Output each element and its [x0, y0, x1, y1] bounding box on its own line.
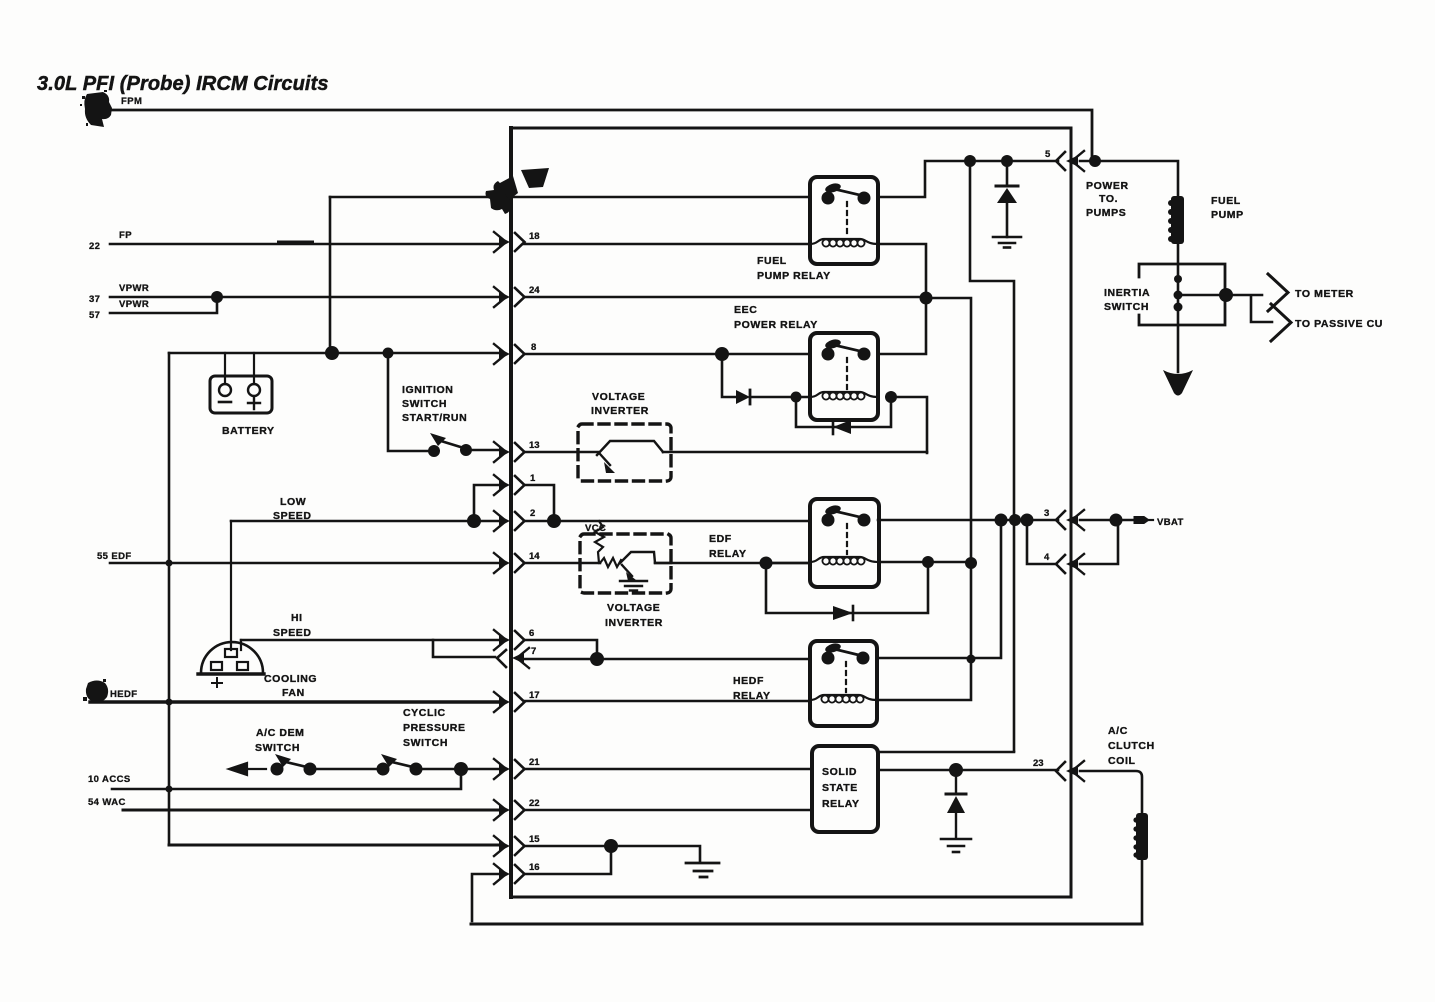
title — [37, 73, 329, 95]
junction dot (796,397) — [791, 392, 802, 403]
wire EEC coil out to pin13 net — [891, 397, 927, 453]
svg-text:22: 22 — [529, 798, 540, 809]
EDF relay box — [810, 499, 879, 587]
label 22 FP — [89, 230, 132, 252]
pin 23 — [1033, 758, 1084, 781]
pin 3 — [1044, 508, 1084, 530]
label 57 VPWR — [89, 299, 149, 321]
junction dot (474,521) — [467, 514, 481, 528]
wire pin21 inside to SSR — [524, 768, 812, 771]
wire pin2 row to EDF relay — [554, 520, 1058, 521]
blotch trapezoid — [521, 168, 549, 188]
EEC relay coil — [810, 392, 878, 400]
label VCC — [585, 523, 606, 534]
junction dot (928,562) — [922, 556, 934, 568]
svg-text:VOLTAGE: VOLTAGE — [592, 391, 645, 403]
label HEDF RELAY — [733, 675, 771, 702]
pin 4 — [1044, 552, 1084, 574]
label A/C DEM SWITCH — [255, 727, 305, 754]
pin 1 — [494, 473, 536, 495]
node FPM blob — [80, 90, 112, 127]
junction dot (169,702) — [166, 699, 173, 706]
wire pin15 inside — [524, 846, 700, 862]
diode arrow on EEC loop — [833, 420, 851, 434]
junction dot A (970,161) — [964, 155, 976, 167]
junction dot (461,769) — [454, 762, 468, 776]
arrow ACCS left end — [229, 763, 266, 775]
junction dot (766,563) — [760, 557, 773, 570]
wire hi speed step to pin7 — [433, 640, 495, 657]
junction dot (971,563) — [965, 557, 977, 569]
junction dot B (1007,161) — [1001, 155, 1013, 167]
svg-text:STATE: STATE — [822, 782, 858, 794]
label 37 VPWR — [89, 283, 149, 305]
svg-text:24: 24 — [529, 285, 540, 296]
pin 8 — [494, 342, 536, 364]
cooling fan — [198, 521, 264, 687]
wire FP pin18 outside — [110, 243, 501, 246]
svg-text:COOLING: COOLING — [264, 673, 317, 685]
label INERTIA SWITCH — [1104, 287, 1150, 313]
EEC relay contacts — [822, 338, 871, 389]
junction dot (956,770) — [949, 763, 963, 777]
pin 18 — [494, 231, 540, 252]
wire HI SPEED — [241, 639, 501, 642]
wire diode branch — [1006, 161, 1009, 237]
VBAT arrow — [1134, 517, 1149, 524]
pin 16 — [494, 862, 540, 884]
wire SSR out pin23 — [878, 769, 1058, 772]
junction dot (597,659) — [590, 652, 604, 666]
svg-text:VBAT: VBAT — [1157, 517, 1184, 528]
svg-text:FP: FP — [119, 230, 132, 241]
svg-text:EEC: EEC — [734, 304, 757, 316]
label HI SPEED — [273, 612, 312, 639]
net label FPM — [121, 96, 142, 107]
arrow TO PASSIVE CU — [1271, 304, 1291, 341]
connector line — [509, 128, 513, 897]
svg-text:55 EDF: 55 EDF — [97, 551, 132, 562]
HEDF relay contacts — [822, 642, 870, 692]
wire bottom outer — [471, 923, 1142, 926]
pin 22 — [494, 798, 540, 820]
svg-text:INVERTER: INVERTER — [591, 405, 649, 417]
junction dot (1116,520) — [1110, 514, 1123, 527]
svg-text:FPM: FPM — [121, 96, 142, 107]
junction dot (891,397) — [885, 391, 897, 403]
transistor Q1 — [597, 441, 663, 473]
A/C clutch coil — [1133, 813, 1148, 860]
junction dot (169,789) — [166, 786, 173, 793]
label TO METER — [1295, 288, 1354, 300]
junction dot (388,353) — [383, 348, 394, 359]
wire pin16 outside to bottom loop — [472, 874, 501, 921]
pin 13 — [494, 440, 540, 462]
wire EDF coil in — [766, 562, 810, 565]
label HEDF — [110, 689, 137, 700]
svg-text:A/C DEM: A/C DEM — [256, 727, 305, 739]
junction dot pin5/FPM (1095,161) — [1089, 155, 1101, 167]
diode D1 to ground — [996, 186, 1018, 203]
svg-text:FUEL: FUEL — [1211, 195, 1241, 207]
wire ACCS — [112, 769, 461, 789]
fuel pump coil — [1168, 196, 1184, 244]
wire VPWR 57 — [110, 297, 217, 313]
label VBAT — [1157, 517, 1184, 528]
svg-text:3.0L PFI (Probe) IRCM Circuits: 3.0L PFI (Probe) IRCM Circuits — [37, 73, 329, 95]
label VOLTAGE INVERTER 2 — [605, 602, 663, 629]
svg-text:INVERTER: INVERTER — [605, 617, 663, 629]
junction dot (554,521) — [547, 514, 561, 528]
svg-text:14: 14 — [529, 551, 540, 562]
label SOLID STATE RELAY — [822, 766, 860, 810]
label CYCLIC PRESSURE SWITCH — [403, 707, 466, 749]
svg-text:LOW: LOW — [280, 496, 306, 508]
wire FPM top — [107, 110, 1092, 161]
diode D3 SSR — [946, 770, 966, 838]
svg-text:TO METER: TO METER — [1295, 288, 1354, 300]
voltage inverter 1 box — [578, 424, 671, 481]
svg-text:CLUTCH: CLUTCH — [1108, 740, 1155, 752]
svg-text:BATTERY: BATTERY — [222, 425, 275, 437]
diode arrow on EDF loop — [833, 606, 853, 620]
svg-text:HEDF: HEDF — [733, 675, 764, 687]
svg-text:4: 4 — [1044, 552, 1050, 563]
wire VPWR 37 — [110, 296, 501, 299]
svg-text:HI: HI — [291, 612, 303, 624]
wire pin23 to clutch coil — [1080, 771, 1142, 813]
switch cyclic pressure — [377, 754, 502, 776]
wire pin22 inside to SSR — [524, 809, 812, 812]
label 55 EDF — [97, 551, 132, 562]
svg-text:IGNITION: IGNITION — [402, 384, 453, 396]
svg-text:INERTIA: INERTIA — [1104, 287, 1150, 299]
FP relay contacts — [822, 182, 871, 236]
node HEDF blob — [83, 679, 108, 702]
svg-text:2: 2 — [530, 508, 535, 519]
svg-text:37: 37 — [89, 294, 100, 305]
solid state relay box — [812, 746, 878, 832]
svg-text:SWITCH: SWITCH — [403, 737, 448, 749]
wire pin18 to FP relay coil — [524, 244, 926, 298]
wire pin6 inside step — [524, 640, 597, 659]
wire pin3-pin4 inside loop — [1027, 520, 1056, 564]
wire FP PWR vertical — [329, 197, 332, 353]
ground G2 inverter — [620, 581, 647, 591]
svg-text:PUMP: PUMP — [1211, 209, 1244, 221]
svg-text:10 ACCS: 10 ACCS — [88, 774, 131, 785]
wire 926 right stub and down — [877, 298, 971, 700]
svg-text:POWER RELAY: POWER RELAY — [734, 319, 818, 331]
pin 6 — [494, 628, 534, 650]
svg-text:SWITCH: SWITCH — [1104, 301, 1149, 313]
svg-text:RELAY: RELAY — [709, 548, 747, 560]
node FP PWR big arrow — [486, 176, 519, 214]
svg-text:START/RUN: START/RUN — [402, 412, 467, 424]
resistor R1 vertical zigzag — [595, 521, 604, 563]
pin 17 — [494, 690, 540, 712]
wire EEC coil loop — [796, 397, 891, 427]
svg-text:COIL: COIL — [1108, 755, 1135, 767]
label 54 WAC — [88, 797, 126, 808]
diode D2 EEC — [736, 390, 750, 404]
svg-text:FUEL: FUEL — [757, 255, 787, 267]
wire EDF pin14 outside — [110, 562, 501, 565]
EEC power relay box — [810, 333, 878, 420]
svg-text:13: 13 — [529, 440, 540, 451]
junction dot (926,298) — [920, 292, 933, 305]
svg-text:5: 5 — [1045, 149, 1051, 160]
wire EDF diode loop — [766, 562, 928, 613]
pin 14 — [494, 551, 540, 573]
transistor Q2 — [620, 552, 671, 581]
svg-text:17: 17 — [529, 690, 540, 701]
junction dot inertia out (1226,295) — [1219, 288, 1233, 302]
svg-text:PUMP RELAY: PUMP RELAY — [757, 270, 831, 282]
ground arrow below inertia — [1163, 370, 1193, 396]
svg-text:FAN: FAN — [282, 687, 305, 699]
svg-text:3: 3 — [1044, 508, 1049, 519]
junction dot (611,846) — [604, 839, 618, 853]
svg-text:16: 16 — [529, 862, 540, 873]
pin 24 — [494, 285, 540, 307]
junction dot (722,354) — [715, 347, 729, 361]
label TO PASSIVE CU — [1295, 318, 1383, 330]
svg-text:23: 23 — [1033, 758, 1044, 769]
wire pin4 outside loop — [1080, 521, 1118, 564]
svg-text:TO.: TO. — [1099, 193, 1118, 205]
pin 5 — [1045, 149, 1084, 171]
wire battery row to pin8 — [169, 352, 501, 355]
svg-text:HEDF: HEDF — [110, 689, 137, 700]
wire left vertical — [168, 353, 171, 845]
wire clutch coil down to bottom — [1141, 860, 1144, 924]
junction dot (1015,520) — [1009, 514, 1021, 526]
wire pin5 to fuel pump — [1080, 161, 1178, 196]
inertia switch box — [1139, 264, 1225, 325]
wire pin1 pin2 bracket inside — [524, 485, 554, 521]
svg-text:EDF: EDF — [709, 533, 732, 545]
svg-text:CYCLIC: CYCLIC — [403, 707, 446, 719]
EDF relay contacts — [822, 504, 871, 554]
label A/C CLUTCH COIL — [1108, 725, 1155, 767]
battery — [210, 353, 272, 413]
junction dot (332,353) — [325, 346, 339, 360]
wire HEDF pin17 outside — [90, 700, 501, 703]
wire FP PWR feed — [330, 196, 496, 199]
svg-text:21: 21 — [529, 757, 540, 768]
svg-text:8: 8 — [531, 342, 536, 353]
label FUEL PUMP — [1211, 195, 1244, 221]
svg-text:TO PASSIVE CU: TO PASSIVE CU — [1295, 318, 1383, 330]
wire EDF coil out — [879, 561, 971, 564]
HEDF relay coil — [810, 695, 877, 703]
voltage inverter 2 box — [580, 534, 671, 593]
pin 15 — [494, 834, 540, 856]
junction dot (169,563) — [166, 560, 173, 567]
wire pin16 inside — [524, 846, 611, 874]
wire pin7 row to HEDF relay — [524, 520, 1001, 659]
svg-text:PRESSURE: PRESSURE — [403, 722, 466, 734]
svg-text:POWER: POWER — [1086, 180, 1129, 192]
wire pin13 inside — [524, 451, 927, 454]
wire pin17 inside to HEDF coil — [524, 700, 810, 703]
svg-text:RELAY: RELAY — [822, 798, 860, 810]
wire power branch down — [970, 161, 1014, 751]
FP relay coil — [810, 239, 878, 247]
wire scan thick mark — [279, 241, 312, 245]
svg-text:57: 57 — [89, 310, 100, 321]
wire pin24 inside — [524, 296, 926, 299]
junction dot VPWR (217,297) — [211, 291, 223, 303]
ground G4 — [686, 863, 719, 877]
wire pin15 outside — [169, 844, 501, 847]
junction dot (1027,520) — [1021, 514, 1034, 527]
label BATTERY — [222, 425, 275, 437]
junction dot (1001,520) — [995, 514, 1008, 527]
wire LOW SPEED — [231, 520, 501, 523]
IRCM module box — [511, 128, 1071, 897]
wire EEC coil feed with diode — [722, 354, 810, 397]
ground G3 — [941, 839, 971, 852]
wire SSR top right to power net — [878, 751, 1014, 754]
svg-text:VPWR: VPWR — [119, 283, 149, 294]
ground G1 — [993, 237, 1021, 248]
svg-text:VPWR: VPWR — [119, 299, 149, 310]
HEDF relay box — [810, 641, 877, 726]
wire WAC — [123, 809, 501, 812]
inertia contact dots — [1174, 275, 1183, 312]
svg-text:22: 22 — [89, 241, 100, 252]
wire pin8 inside to EEC relay — [524, 298, 926, 354]
pin 7 (output) — [497, 646, 536, 668]
svg-text:15: 15 — [529, 834, 540, 845]
svg-text:6: 6 — [529, 628, 534, 639]
svg-text:SWITCH: SWITCH — [402, 398, 447, 410]
resistor R2 horizontal zigzag — [600, 558, 621, 567]
label VOLTAGE INVERTER 1 — [591, 391, 649, 417]
label 10 ACCS — [88, 774, 131, 785]
svg-text:SWITCH: SWITCH — [255, 742, 300, 754]
arrow TO METER — [1268, 274, 1288, 311]
svg-text:SPEED: SPEED — [273, 627, 312, 639]
wire fuel pump to inertia — [1177, 244, 1180, 372]
svg-text:VOLTAGE: VOLTAGE — [607, 602, 660, 614]
label LOW SPEED — [273, 496, 312, 522]
svg-text:RELAY: RELAY — [733, 690, 771, 702]
wire pin3 out to VBAT — [1080, 519, 1134, 522]
pin 21 — [494, 757, 540, 779]
label EDF RELAY — [709, 533, 747, 560]
wire pin14 inside — [524, 562, 810, 565]
svg-text:SOLID: SOLID — [822, 766, 857, 778]
label EEC POWER RELAY — [734, 304, 818, 331]
wire low speed to pin1 — [474, 485, 501, 521]
label IGNITION SWITCH START/RUN — [402, 384, 467, 424]
junction dot (971,659) — [967, 655, 976, 664]
svg-text:18: 18 — [529, 231, 540, 242]
EDF relay coil — [810, 557, 879, 565]
wire inertia to meter tee — [1178, 295, 1272, 322]
svg-text:54 WAC: 54 WAC — [88, 797, 126, 808]
svg-text:1: 1 — [530, 473, 536, 484]
wire FP relay contact row — [513, 161, 1058, 197]
svg-text:7: 7 — [531, 646, 536, 657]
svg-text:PUMPS: PUMPS — [1086, 207, 1126, 219]
pin 2 — [494, 508, 535, 531]
label COOLING FAN — [264, 673, 317, 699]
fuel pump relay box — [810, 177, 878, 264]
switch A/C DEM — [271, 754, 383, 776]
svg-text:A/C: A/C — [1108, 725, 1128, 737]
ignition switch — [388, 353, 501, 457]
label POWER TO PUMPS — [1086, 180, 1129, 219]
label FUEL PUMP RELAY — [757, 255, 831, 282]
